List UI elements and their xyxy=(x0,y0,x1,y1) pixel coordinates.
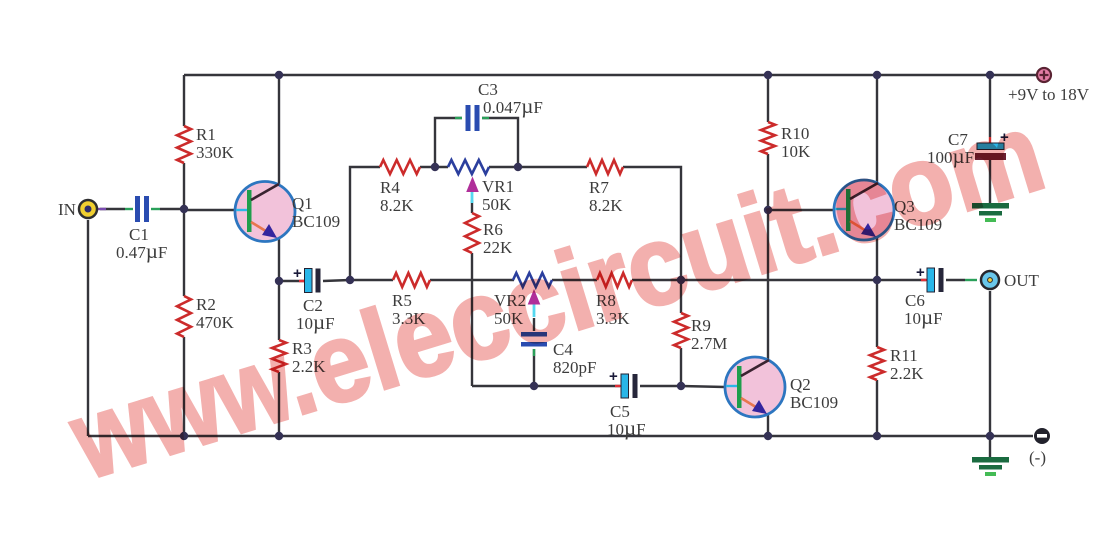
svg-text:Q1: Q1 xyxy=(292,194,313,213)
node bottom rail R3 xyxy=(275,432,283,440)
wire C7 branch xyxy=(989,75,991,203)
wire tone row left corner xyxy=(350,167,380,280)
capacitor C5 xyxy=(607,368,646,440)
svg-text:IN: IN xyxy=(58,200,76,219)
resistor R9 xyxy=(674,313,727,353)
svg-text:2.2K: 2.2K xyxy=(890,364,924,383)
wire Q1 emitter down / R3 branch xyxy=(278,238,280,436)
wire C1 to base node xyxy=(160,208,184,210)
wire top supply rail xyxy=(184,74,1037,76)
wire tone row mid segments xyxy=(420,166,587,168)
svg-text:8.2K: 8.2K xyxy=(380,196,414,215)
svg-text:2.7M: 2.7M xyxy=(691,334,727,353)
node C3 right xyxy=(514,163,522,171)
svg-text:Q2: Q2 xyxy=(790,375,811,394)
resistor R5 xyxy=(392,273,430,328)
transistor Q1 xyxy=(235,182,340,242)
wire VR1 wiper to R6 xyxy=(471,200,473,386)
svg-text:0.47µF: 0.47µF xyxy=(116,239,167,263)
resistor R6 xyxy=(465,213,513,257)
svg-text:820pF: 820pF xyxy=(553,358,596,377)
wire IN to C1 xyxy=(100,208,125,210)
input terminal IN xyxy=(58,200,106,219)
negative terminal (-) xyxy=(1029,428,1050,467)
resistor R3 xyxy=(272,339,326,376)
node top rail above R10 xyxy=(764,71,772,79)
wire C3 bridge xyxy=(435,118,518,167)
node bottom rail OUT ground xyxy=(986,432,994,440)
wire VR2 wiper to C4 xyxy=(533,318,535,386)
svg-text:+: + xyxy=(916,264,925,281)
node bottom rail R11 xyxy=(873,432,881,440)
wire Q3 collector up xyxy=(876,75,878,183)
wire bottom ground rail xyxy=(88,435,1033,437)
node top rail above Q1 xyxy=(275,71,283,79)
potentiometer VR2 xyxy=(494,273,552,328)
node top rail above C7 xyxy=(986,71,994,79)
power terminal +9V xyxy=(1008,68,1090,104)
ground below C7 xyxy=(972,203,1009,222)
capacitor C4 xyxy=(521,332,596,377)
node Q3 emitter / R11 xyxy=(873,276,881,284)
capacitor C7 xyxy=(927,129,1009,168)
capacitor C3 xyxy=(455,80,543,131)
svg-text:R2: R2 xyxy=(196,295,216,314)
svg-text:330K: 330K xyxy=(196,143,235,162)
svg-text:VR1: VR1 xyxy=(482,177,514,196)
node bottom rail Q2 emitter xyxy=(764,432,772,440)
svg-text:10µF: 10µF xyxy=(607,416,646,440)
wire tone row right corner xyxy=(623,167,681,280)
resistor R11 xyxy=(870,346,924,383)
capacitor C2 xyxy=(293,265,335,334)
svg-text:0.047µF: 0.047µF xyxy=(483,94,543,118)
wire R10 / Q2 collector vertical xyxy=(767,75,769,360)
transistor Q2 xyxy=(725,357,838,417)
ground below OUT xyxy=(972,457,1009,476)
svg-text:+: + xyxy=(609,368,618,385)
wire feedback bottom rail xyxy=(472,386,725,387)
node top rail above Q3 xyxy=(873,71,881,79)
svg-text:C3: C3 xyxy=(478,80,498,99)
svg-text:+: + xyxy=(293,265,302,282)
svg-text:BC109: BC109 xyxy=(292,212,340,231)
svg-text:R10: R10 xyxy=(781,124,809,143)
potentiometer VR1 xyxy=(448,160,514,214)
node C4 bottom xyxy=(530,382,538,390)
node bottom rail R2 xyxy=(180,432,188,440)
wire Q1 collector up xyxy=(278,75,280,185)
svg-text:R6: R6 xyxy=(483,220,503,239)
wire Q2 emitter down xyxy=(767,414,769,436)
output terminal OUT xyxy=(981,271,1040,290)
node tone row left xyxy=(346,276,354,284)
svg-text:OUT: OUT xyxy=(1004,271,1040,290)
svg-text:10µF: 10µF xyxy=(904,305,943,329)
svg-text:(-): (-) xyxy=(1029,448,1046,467)
node C3 left xyxy=(431,163,439,171)
svg-text:BC109: BC109 xyxy=(790,393,838,412)
resistor R4 xyxy=(380,160,420,215)
wire left input drop xyxy=(87,220,89,436)
svg-text:R11: R11 xyxy=(890,346,918,365)
wire Q3 base xyxy=(768,209,835,211)
svg-text:R1: R1 xyxy=(196,125,216,144)
capacitor C6 xyxy=(904,264,977,329)
resistor R7 xyxy=(587,160,623,215)
svg-text:R7: R7 xyxy=(589,178,609,197)
node Q1 emitter / C2 xyxy=(275,277,283,285)
svg-text:50K: 50K xyxy=(482,195,512,214)
wire R9 branch xyxy=(680,280,682,386)
resistor R10 xyxy=(761,122,811,161)
watermark www.eleccircuit.com xyxy=(56,88,1057,503)
wire mid row xyxy=(350,279,926,281)
svg-text:R4: R4 xyxy=(380,178,400,197)
wire base node to Q1 xyxy=(184,209,236,211)
node Q2 base xyxy=(677,382,685,390)
resistor R1 xyxy=(177,125,235,163)
node Q1 base xyxy=(180,205,188,213)
wire R11 branch xyxy=(876,280,878,436)
wire OUT drop to rail xyxy=(989,291,991,457)
wire C6 to OUT xyxy=(946,279,965,281)
wire Q3 emitter down xyxy=(876,237,878,280)
wire R1/R2 branch vertical xyxy=(183,75,185,436)
resistor R8 xyxy=(596,273,632,328)
node Q3 base / R10 xyxy=(764,206,772,214)
wire C2 leads xyxy=(279,280,350,281)
capacitor C1 xyxy=(116,196,167,263)
node tone row right xyxy=(677,276,685,284)
transistor Q3 xyxy=(834,180,942,240)
resistor R2 xyxy=(177,295,235,337)
